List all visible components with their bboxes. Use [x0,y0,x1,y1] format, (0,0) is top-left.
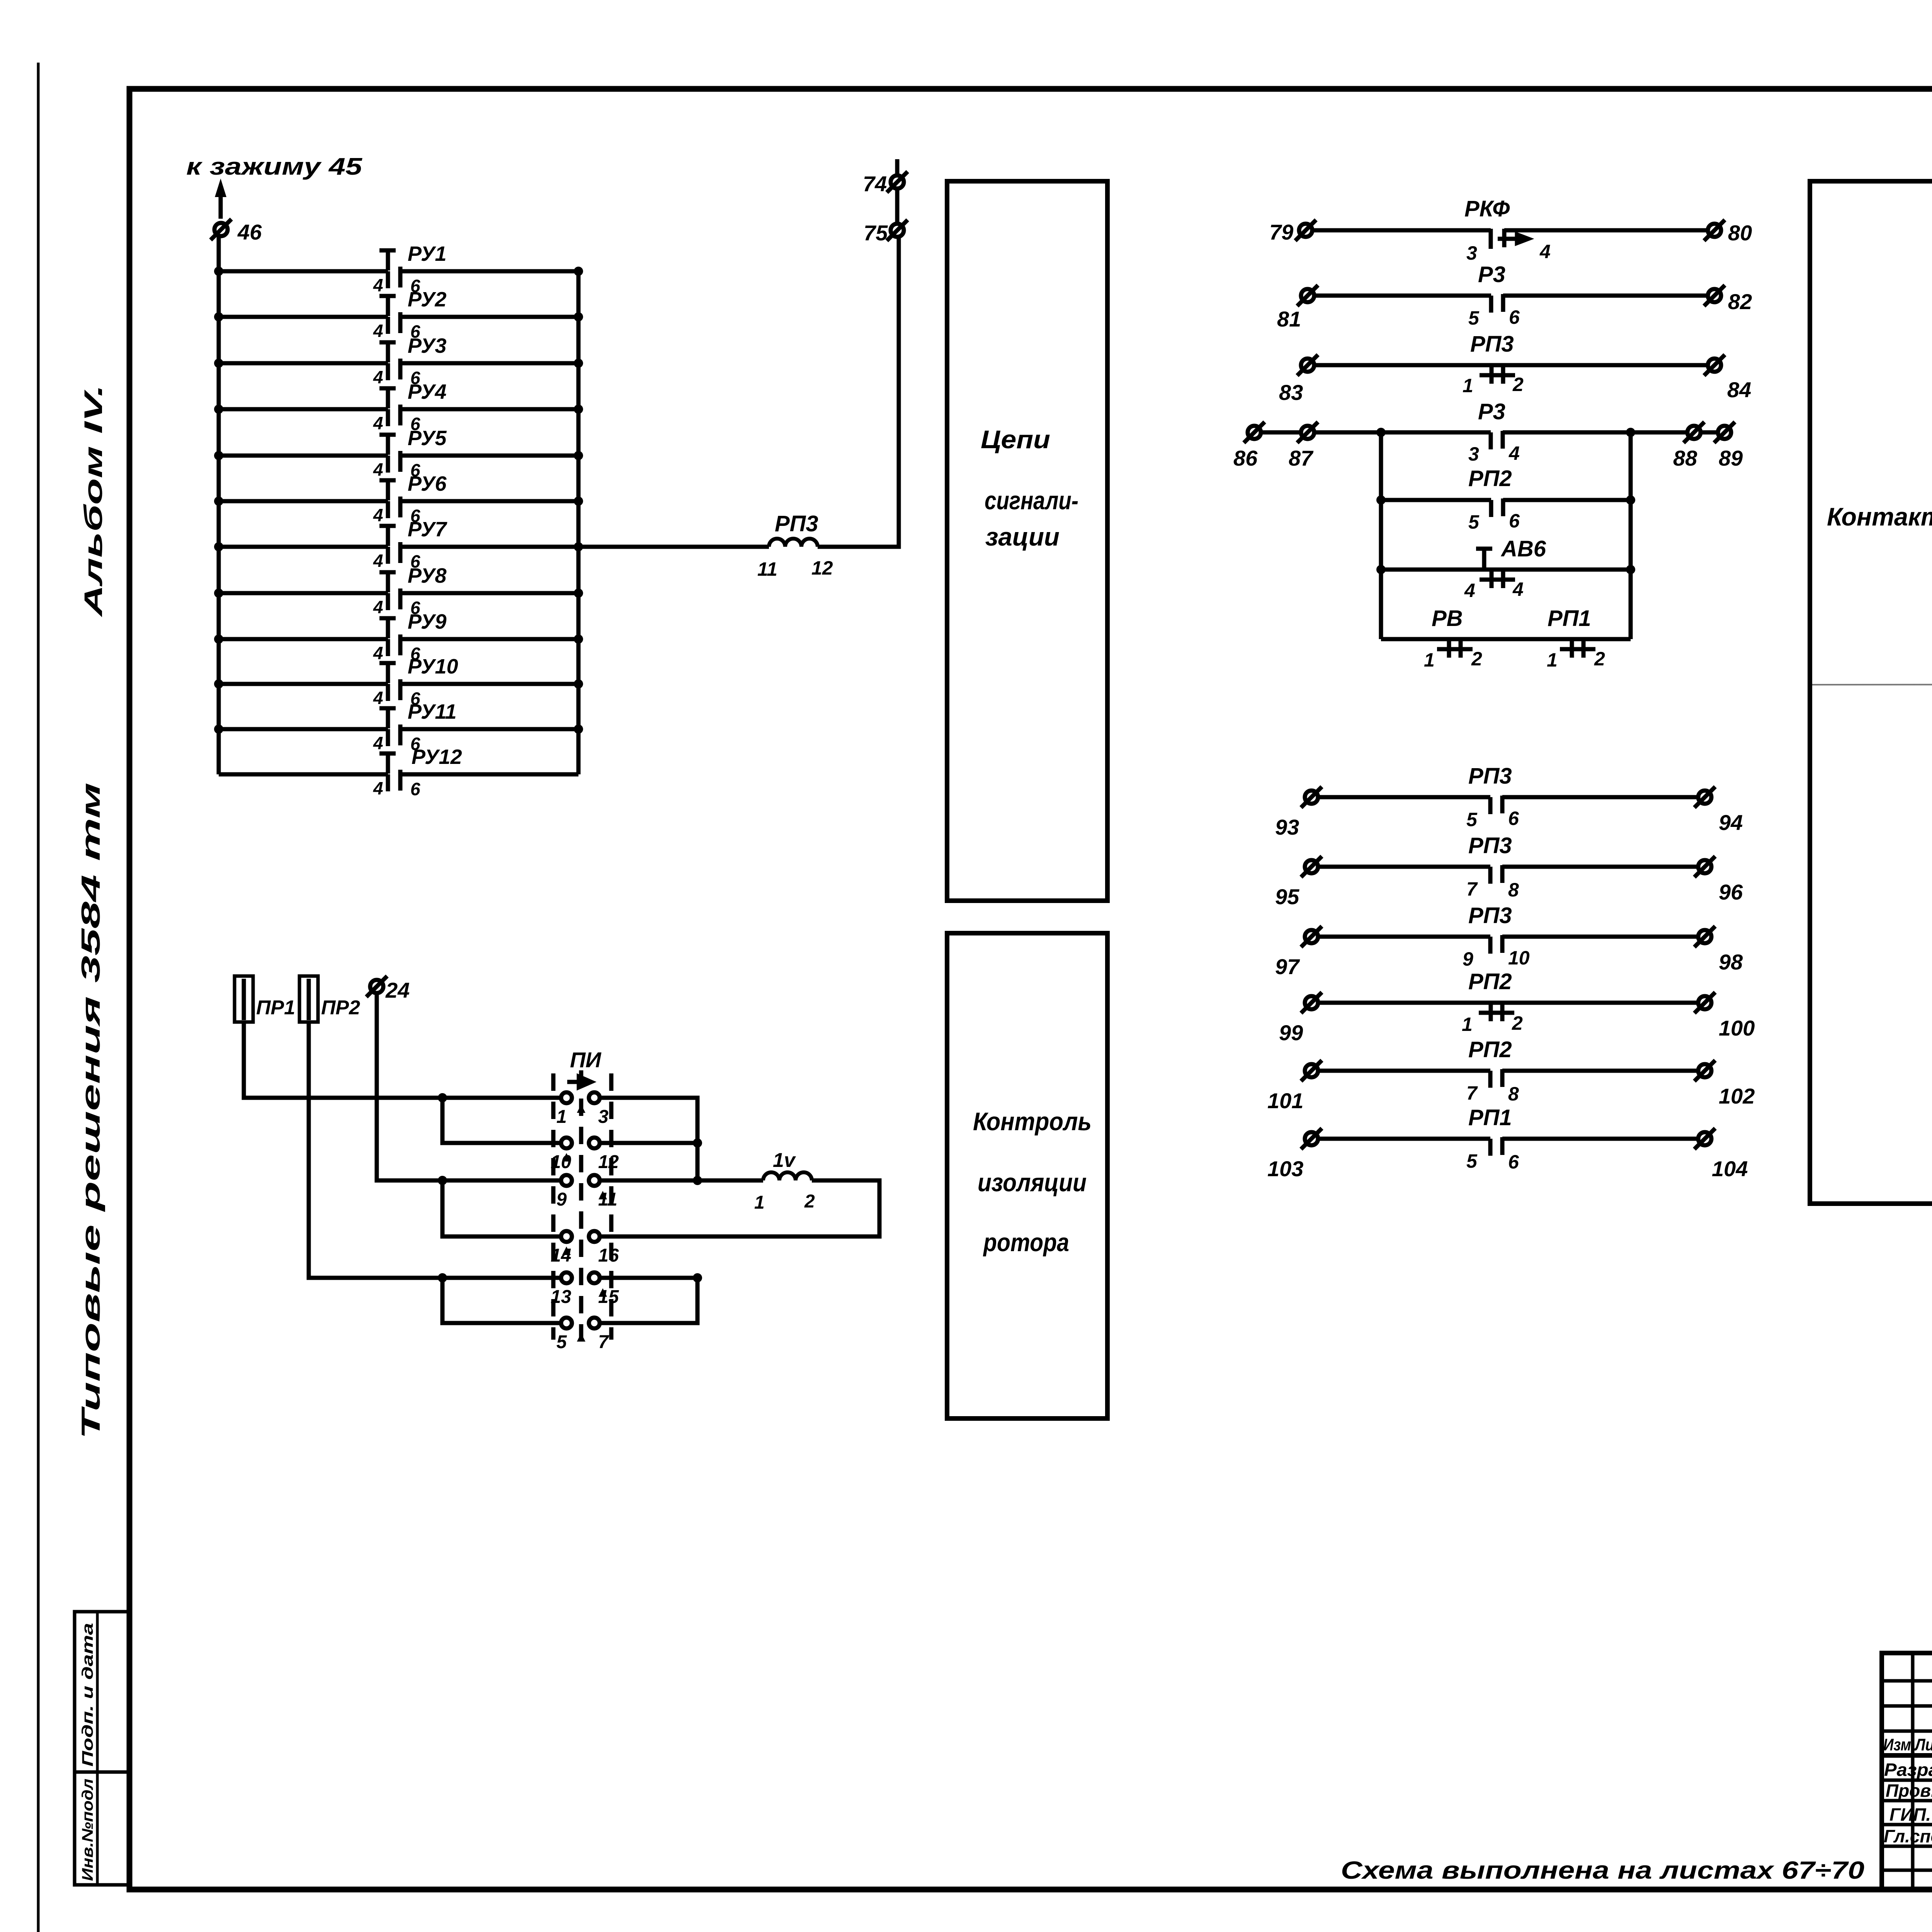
svg-text:4: 4 [373,459,383,480]
PLACE2 [1233,196,1755,1181]
svg-text:81: 81 [1277,307,1301,331]
svg-text:2: 2 [804,1191,815,1212]
contact triangles on ПИ [562,1104,607,1342]
contact РП3 (pins 1-2) closed [1314,363,1708,367]
svg-text:83: 83 [1279,380,1303,405]
contact АВ6 (pins 4-4) closed branch [1381,568,1631,572]
svg-text:7: 7 [1466,878,1478,900]
svg-text:7: 7 [1466,1082,1478,1104]
svg-text:2: 2 [1471,648,1482,670]
contact РП3 (pins 9-10) [1318,935,1490,939]
terminal 93 [1301,787,1322,808]
svg-text:РУ8: РУ8 [408,564,447,587]
svg-text:3: 3 [1466,242,1477,264]
contact РУ5 (pins 4-6) [214,427,583,480]
svg-text:2: 2 [1594,648,1605,670]
svg-text:88: 88 [1673,446,1697,470]
wire right bus down to row 11 [696,1143,700,1180]
terminal 89 [1714,422,1735,443]
svg-text:РП3: РП3 [1468,764,1512,789]
svg-text:РУ4: РУ4 [408,380,447,403]
svg-text:зации: зации [985,522,1060,551]
svg-text:РУ1: РУ1 [408,242,447,265]
svg-text:4: 4 [373,367,383,387]
svg-text:4: 4 [373,275,383,295]
svg-text:5: 5 [1468,307,1480,329]
box Цепи сигнализации [947,181,1107,901]
terminal 84 [1704,355,1725,376]
svg-text:79: 79 [1269,220,1293,244]
svg-text:АВ6: АВ6 [1500,536,1546,561]
svg-text:101: 101 [1267,1088,1303,1113]
svg-text:1: 1 [1463,375,1473,396]
svg-text:РУ6: РУ6 [408,472,447,495]
terminal 104 [1694,1128,1715,1149]
wire right bus [577,271,581,774]
contact РП2 (pins 1-2) closed [1318,1001,1698,1005]
contact Р3 (pins 5-6) [1314,294,1491,298]
svg-text:РУ9: РУ9 [408,610,447,633]
wire left bus [217,236,221,774]
pin 13 [561,1272,572,1283]
svg-text:5: 5 [1466,809,1478,830]
svg-text:24: 24 [385,978,410,1002]
svg-text:95: 95 [1275,884,1299,909]
svg-text:97: 97 [1275,954,1300,979]
terminal 75 [887,220,908,241]
svg-text:12: 12 [598,1152,619,1172]
svg-text:93: 93 [1275,815,1299,839]
svg-text:4: 4 [373,643,383,663]
svg-text:96: 96 [1719,880,1743,904]
relay coil РП3 (pins 11-12) [769,539,818,547]
svg-text:74: 74 [863,172,887,196]
pin 3 [589,1092,600,1103]
contact РУ7 (pins 4-6) [214,518,583,571]
contact РУ12 (pins 4-6) [219,745,578,799]
svg-text:РУ5: РУ5 [408,427,447,450]
svg-text:РУ12: РУ12 [412,745,462,769]
terminal 81 [1297,285,1318,306]
svg-text:87: 87 [1289,446,1314,470]
pin 16 [589,1231,600,1242]
contact РП1 (pins 5-6) [1318,1137,1490,1141]
svg-text:99: 99 [1279,1020,1303,1045]
contact РУ10 (pins 4-6) [214,655,583,709]
wire 88-89 [1701,430,1718,435]
svg-text:1: 1 [556,1107,567,1127]
pin 1 [561,1092,572,1103]
svg-text:изоляции: изоляции [978,1168,1087,1197]
svg-text:12: 12 [811,557,833,579]
terminal 96 [1694,856,1715,877]
contact РВ (pins 1-2) closed [1437,638,1473,658]
svg-text:1v: 1v [773,1149,796,1172]
svg-text:4: 4 [1464,580,1475,601]
fuse ПР1 [235,976,253,1022]
svg-text:6: 6 [1508,808,1519,829]
svg-text:4: 4 [373,597,383,617]
terminal 80 [1704,220,1725,241]
svg-text:4: 4 [373,321,383,341]
svg-text:86: 86 [1233,446,1258,470]
svg-text:ПР2: ПР2 [321,997,360,1019]
svg-text:РВ: РВ [1432,606,1463,631]
pin 9 [561,1175,572,1186]
svg-text:84: 84 [1727,378,1751,402]
svg-text:РУ2: РУ2 [408,288,447,311]
svg-text:4: 4 [373,413,383,433]
svg-text:Инв.№подл: Инв.№подл [79,1779,96,1881]
wire coil РП3 to terminal 75 [818,237,899,547]
terminal 82 [1704,285,1725,306]
svg-text:4: 4 [373,505,383,525]
svg-text:к зажиму 45: к зажиму 45 [186,153,363,180]
svg-text:ГИП.: ГИП. [1889,1804,1931,1825]
svg-text:ротора: ротора [983,1228,1069,1257]
svg-text:6: 6 [1508,1151,1519,1173]
terminal 103 [1301,1128,1322,1149]
terminal 100 [1694,992,1715,1013]
scan fold line [1812,684,1932,685]
svg-text:16: 16 [598,1245,619,1266]
svg-text:РП3: РП3 [775,511,818,536]
terminal 83 [1297,355,1318,376]
branch bus right [1629,432,1633,639]
svg-text:4: 4 [373,733,383,753]
svg-text:РП3: РП3 [1468,833,1512,858]
terminal 74 [887,172,908,192]
pin 5 [561,1318,572,1328]
svg-text:103: 103 [1267,1156,1303,1181]
contact РУ4 (pins 4-6) [214,380,583,434]
svg-text:4: 4 [1539,241,1551,262]
svg-text:1: 1 [1547,649,1558,671]
svg-text:4: 4 [373,551,383,571]
box Контроль изоляции ротора [947,933,1107,1418]
svg-text:2: 2 [1512,1012,1523,1034]
svg-text:Контакты: Контакты [1827,502,1932,531]
contact РП2 (pins 5-6) branch [1381,498,1491,502]
svg-text:РП2: РП2 [1468,1037,1512,1062]
terminal 101 [1301,1060,1322,1081]
svg-text:80: 80 [1728,221,1752,245]
contact РП3 (pins 7-8) [1318,865,1490,869]
svg-text:РКФ: РКФ [1464,196,1510,221]
terminal 87 [1297,422,1318,443]
svg-text:Разраб: Разраб [1884,1760,1932,1780]
contact РП2 (pins 7-8) [1318,1069,1490,1073]
svg-text:10: 10 [1508,947,1530,969]
svg-text:РП2: РП2 [1468,969,1512,994]
contact РУ2 (pins 4-6) [214,288,583,342]
svg-text:15: 15 [598,1287,619,1307]
contact Р3 (pins 3-4) [1503,430,1687,435]
pin 10 [561,1138,572,1148]
node к зажиму 45 (arrow up) [219,186,223,219]
svg-text:102: 102 [1719,1084,1755,1108]
pin 11 [589,1175,600,1186]
svg-text:11: 11 [757,558,777,580]
svg-text:3: 3 [598,1107,609,1127]
pin 15 [589,1272,600,1283]
terminal 88 [1684,422,1704,443]
pin 14 [561,1231,572,1242]
svg-text:1: 1 [1424,649,1435,671]
svg-text:ПИ: ПИ [570,1048,602,1072]
terminal 97 [1301,926,1322,947]
wire РУ7 row to coil РП3 [578,545,769,549]
svg-text:1: 1 [1462,1014,1473,1035]
svg-text:Лист: Лист [1914,1735,1932,1754]
wire ПР2 down to row 13 [309,1022,561,1278]
wire 24 down to row 9 [377,993,561,1180]
svg-text:3: 3 [1468,443,1479,465]
terminal 95 [1301,856,1322,877]
svg-text:4: 4 [373,778,383,798]
svg-text:ПР1: ПР1 [256,997,295,1019]
arrow marker on ПИ [567,1077,591,1087]
svg-text:4: 4 [373,688,383,708]
svg-text:РУ7: РУ7 [408,518,448,541]
svg-text:4: 4 [1509,442,1520,464]
terminal 98 [1694,926,1715,947]
sheet left edge line [37,63,40,1932]
svg-text:9: 9 [1463,948,1473,970]
wire 87 to left branch bus [1314,430,1491,435]
svg-text:Гл.спец: Гл.спец [1884,1826,1932,1846]
svg-text:6: 6 [410,779,420,799]
svg-text:8: 8 [1508,1083,1519,1105]
svg-text:10: 10 [551,1152,571,1172]
svg-text:сигнали-: сигнали- [985,486,1078,515]
junction on row13 + wire to pin 5 [438,1273,447,1282]
terminal 79 [1295,220,1316,241]
junction on row9 + wire to pin 14 [438,1176,447,1185]
contact РУ3 (pins 4-6) [214,334,583,388]
svg-text:4: 4 [1512,578,1524,600]
svg-text:РП3: РП3 [1468,903,1512,928]
wire stub above 74 [895,159,900,175]
svg-text:Типовые решения 3584 тм: Типовые решения 3584 тм [76,782,105,1439]
svg-text:РУ11: РУ11 [408,700,457,723]
terminal 94 [1694,787,1715,808]
svg-text:Пров.: Пров. [1886,1781,1932,1801]
wire 86-87 [1261,430,1301,435]
svg-text:1: 1 [754,1192,765,1213]
contact РУ11 (pins 4-6) [214,700,583,754]
svg-text:РП1: РП1 [1468,1105,1512,1130]
svg-text:8: 8 [1508,879,1519,901]
pin 7 [589,1318,600,1328]
title block signature table [1882,1653,1932,1889]
svg-text:Подп. и дата: Подп. и дата [79,1623,96,1767]
svg-text:5: 5 [1468,511,1480,533]
wire 75 to 74 [895,189,900,223]
svg-text:5: 5 [556,1332,567,1352]
contact РУ1 (pins 4-6) [214,242,583,296]
svg-text:94: 94 [1719,810,1743,835]
wire pin 11 to coil 1v [600,1179,763,1183]
svg-text:6: 6 [1509,306,1520,328]
svg-text:46: 46 [237,220,262,244]
svg-text:82: 82 [1728,289,1752,314]
box Контакты (left) [1810,181,1932,1204]
svg-text:Р3: Р3 [1478,399,1505,424]
pin 12 [589,1138,600,1148]
coil 1v (pins 1-2) [763,1172,812,1180]
branch bus left [1379,432,1383,639]
svg-text:14: 14 [551,1245,571,1266]
svg-text:5: 5 [1466,1150,1478,1172]
svg-text:98: 98 [1719,950,1743,974]
svg-text:РП1: РП1 [1548,606,1591,631]
fuse ПР2 [299,976,318,1022]
svg-text:9: 9 [556,1189,567,1210]
svg-text:Альбом IV.: Альбом IV. [79,384,107,617]
svg-text:2: 2 [1512,374,1524,395]
wire pin 12 to right bus [600,1141,697,1145]
svg-text:РП2: РП2 [1468,466,1512,491]
svg-text:Схема выполнена на листах 6: Схема выполнена на листах 67÷70 [1341,1856,1864,1884]
svg-text:РП3: РП3 [1470,332,1514,357]
svg-text:РУ10: РУ10 [408,655,458,678]
svg-text:100: 100 [1719,1016,1755,1040]
svg-text:Контроль: Контроль [973,1107,1092,1136]
sidebar stamp table (Инв/Подп cells) [75,1612,129,1885]
svg-text:89: 89 [1719,446,1743,470]
terminal 99 [1301,992,1322,1013]
terminal 24 [366,976,387,997]
contact РУ8 (pins 4-6) [214,564,583,618]
svg-text:104: 104 [1712,1156,1748,1181]
svg-text:7: 7 [598,1332,609,1352]
contact РКФ (pins 3-4) with arrow [1312,228,1491,233]
svg-text:75: 75 [864,221,888,245]
contact РП3 (pins 5-6) [1318,795,1490,799]
bottom branch wire [1381,637,1631,641]
svg-text:Цепи: Цепи [981,425,1050,454]
contact РУ9 (pins 4-6) [214,610,583,664]
wire pin 3 to right bus [600,1098,697,1143]
terminal 102 [1694,1060,1715,1081]
contact РП1 (pins 1-2) closed [1560,638,1595,658]
wire ПР1 down to row 1 [244,1022,561,1098]
wire coil 1v to pin 16 [600,1180,879,1236]
svg-text:Изм: Изм [1883,1735,1911,1754]
svg-text:11: 11 [598,1189,617,1210]
svg-text:6: 6 [1509,510,1520,532]
junction on row1 + wire to pin 10 [438,1093,447,1102]
svg-text:13: 13 [551,1287,571,1307]
terminal 86 [1244,422,1265,443]
wire pin 15 to right bus [600,1278,697,1323]
svg-text:Р3: Р3 [1478,262,1505,287]
svg-text:РУ3: РУ3 [408,334,447,357]
terminal 46 [211,219,231,240]
contact РУ6 (pins 4-6) [214,472,583,526]
